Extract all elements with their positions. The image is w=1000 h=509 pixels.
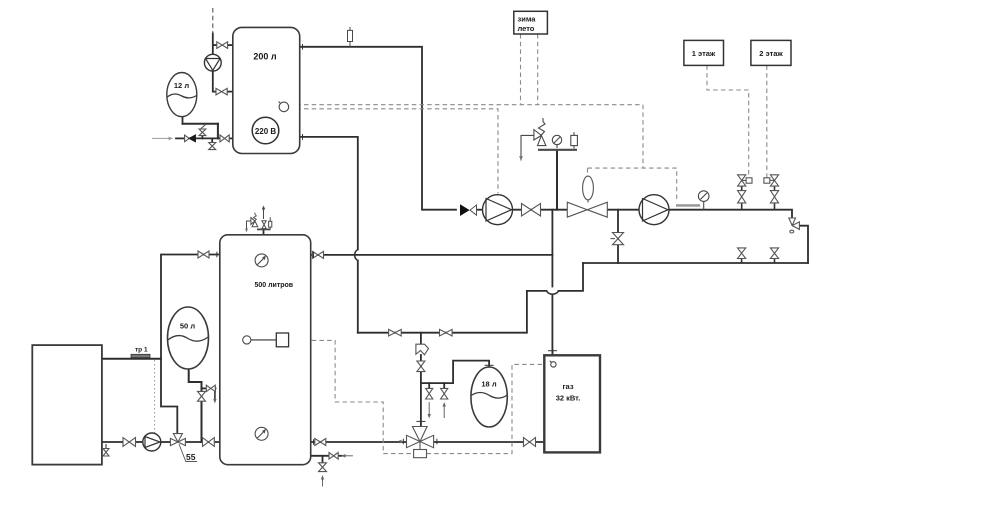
svg-text:500 литров: 500 литров [254, 282, 293, 289]
svg-text:2 этаж: 2 этаж [759, 49, 783, 58]
svg-text:газ: газ [562, 382, 573, 391]
svg-text:55: 55 [186, 452, 196, 462]
svg-text:32 кВт.: 32 кВт. [556, 394, 581, 403]
svg-text:зима: зима [518, 15, 537, 24]
svg-text:50 л: 50 л [180, 322, 195, 331]
svg-text:1 этаж: 1 этаж [692, 49, 716, 58]
svg-text:18 л: 18 л [481, 380, 496, 389]
svg-text:12 л: 12 л [174, 81, 189, 90]
svg-text:тр 1: тр 1 [135, 347, 148, 354]
svg-text:200 л: 200 л [253, 52, 277, 62]
svg-text:лето: лето [518, 24, 535, 33]
svg-text:220 В: 220 В [255, 127, 277, 136]
